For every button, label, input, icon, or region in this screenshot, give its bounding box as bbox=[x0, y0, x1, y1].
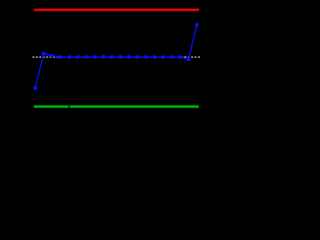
marker p12 bbox=[127, 55, 131, 59]
green line notch bbox=[68, 105, 70, 108]
marker p13 bbox=[136, 55, 140, 59]
marker p8 bbox=[93, 55, 97, 59]
red upper-limit line glow bbox=[34, 8, 199, 11]
marker p2 bbox=[42, 52, 46, 56]
green lower-limit line glow bbox=[34, 105, 199, 108]
marker p15 bbox=[153, 55, 157, 59]
marker p19 bbox=[187, 57, 191, 61]
marker p4 bbox=[59, 55, 63, 59]
marker p16 bbox=[161, 55, 165, 59]
green lower-limit line bbox=[34, 106, 199, 108]
marker p5 bbox=[67, 55, 71, 59]
red upper-limit line bbox=[34, 9, 199, 11]
marker p17 bbox=[170, 55, 174, 59]
plot background bbox=[0, 0, 204, 140]
blue data line bbox=[35, 25, 197, 88]
marker p18 bbox=[178, 55, 182, 59]
marker p14 bbox=[144, 55, 148, 59]
marker p3 bbox=[50, 54, 54, 58]
marker p6 bbox=[76, 55, 80, 59]
marker p1 bbox=[33, 86, 37, 90]
marker p11 bbox=[119, 55, 123, 59]
white dashed reference line bbox=[32, 56, 200, 58]
marker p7 bbox=[84, 55, 88, 59]
marker p20 bbox=[195, 23, 199, 27]
marker p9 bbox=[101, 55, 105, 59]
marker p10 bbox=[110, 55, 114, 59]
